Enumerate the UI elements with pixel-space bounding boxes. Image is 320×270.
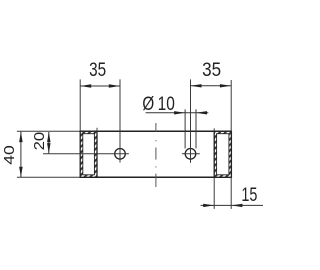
leader line Ø10 (146, 111, 209, 114)
dimension line 35 right (191, 84, 231, 87)
15 left extension line below part (213, 177, 215, 209)
hole 1 horizontal center/extension line (43, 153, 129, 155)
svg-text:15: 15 (241, 185, 257, 206)
svg-text:35: 35 (89, 59, 106, 81)
hole 1 vertical center/extension line (119, 79, 121, 162)
part top edge (80, 130, 232, 132)
part bottom edge (80, 176, 232, 178)
dimension line 20 (47, 132, 51, 153)
extension line top-left (part top edge extended) (17, 130, 80, 132)
svg-text:20: 20 (31, 132, 48, 151)
hole 2 right tangent extension line (195, 109, 197, 148)
svg-text:35: 35 (202, 59, 221, 81)
right end plate outer rect (214, 131, 231, 177)
dimension line 15 (201, 204, 263, 207)
right edge extension line below part (230, 177, 232, 209)
hole 2 vertical center/extension line (190, 79, 192, 162)
hole 2 circle (185, 149, 196, 160)
svg-text:Ø: Ø (142, 93, 154, 115)
dimension line 35 left (80, 84, 120, 87)
hole 2 horizontal center line (182, 153, 200, 155)
vertical dash-dot centerline (155, 123, 157, 187)
dimension line 40 (19, 132, 23, 178)
svg-text:10: 10 (158, 93, 175, 115)
extension line bottom-left (part bottom edge extended) (17, 176, 80, 178)
right edge extension line above part (230, 80, 232, 131)
right plate inner wall overshoot line (213, 128, 215, 131)
left plate inner wall overshoot line (96, 128, 98, 132)
hole 2 left tangent extension line (184, 109, 186, 148)
svg-text:40: 40 (1, 145, 18, 165)
left end plate outer rect (80, 131, 97, 177)
hole 1 circle (115, 149, 126, 160)
left 35 extension line above part (79, 79, 81, 131)
